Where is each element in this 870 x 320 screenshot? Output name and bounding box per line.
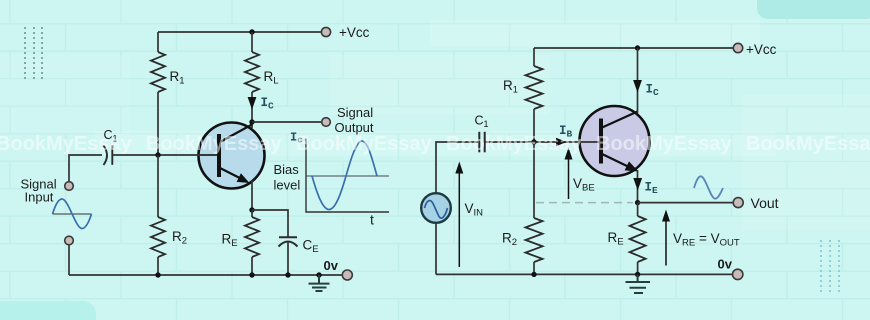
ground (left) — [309, 275, 330, 291]
svg-text:Input: Input — [25, 190, 54, 205]
wire: signal output — [252, 121, 322, 123]
svg-text:level: level — [274, 178, 301, 193]
svg-text:BookMyEssay: BookMyEssay — [0, 133, 132, 155]
node: collector tap on right top rail — [635, 45, 640, 50]
node: CE at rail — [285, 272, 290, 277]
arrow VBE — [568, 158, 570, 199]
terminal +Vcc (left) — [321, 27, 330, 36]
capacitor C1 (right) — [478, 132, 480, 153]
wire: C1 to Q2 base — [485, 141, 600, 143]
wire: lower input terminal to bottom rail — [68, 245, 70, 275]
wire: emitter lead from Q1 — [251, 180, 253, 210]
capacitor CE — [279, 236, 297, 238]
svg-text:Bias: Bias — [274, 162, 300, 177]
node: base node (R1/R2/C1) — [155, 152, 160, 157]
wire: R2 bottom lead — [157, 257, 159, 275]
node: R2 at rail (right) — [531, 272, 536, 277]
node: emitter node (right) — [635, 200, 640, 205]
wire: R2 top lead (right) — [533, 142, 535, 218]
terminal signal input upper — [65, 182, 74, 191]
svg-text:+Vcc: +Vcc — [746, 42, 777, 57]
svg-text:0v: 0v — [324, 258, 339, 273]
wire: right circuit top rail — [534, 47, 733, 49]
wire: left bottom rail — [69, 274, 342, 276]
resistor R2 (right) — [526, 218, 543, 262]
terminal 0v (right) — [733, 269, 743, 279]
resistor RE (right) — [630, 216, 646, 262]
terminal 0v (left) — [342, 270, 352, 280]
svg-text:t: t — [370, 212, 374, 228]
wire: RL top lead — [251, 32, 253, 52]
graph sine wave — [312, 141, 377, 210]
wire: C1 to base node to Q1 base — [112, 154, 217, 156]
node: emitter node — [249, 207, 254, 212]
svg-text:Vout: Vout — [751, 195, 779, 211]
wire: R2 top lead from base node — [157, 155, 159, 217]
wire: CE bottom lead — [287, 242, 289, 275]
current arrow IC (right) — [633, 80, 642, 93]
node: ground tap — [316, 272, 321, 277]
wire: Vout — [638, 202, 734, 204]
wire: AC source bottom to rail — [435, 223, 437, 275]
wire: left circuit top rail to +Vcc — [158, 31, 321, 33]
node: base node (right) — [531, 139, 536, 144]
wire: R1 bottom lead to base node (right) — [533, 109, 535, 142]
node: left top rail junction at RL column — [249, 29, 254, 34]
svg-text:+Vcc: +Vcc — [339, 25, 370, 40]
node: RE at rail — [249, 272, 254, 277]
wire: R1 top lead (right) — [533, 48, 535, 66]
wire: emitter node to RE — [251, 210, 253, 217]
wire: R1 bottom lead to base node — [157, 92, 159, 155]
resistor R2 (left) — [151, 217, 165, 257]
terminal +Vcc (right) — [733, 43, 742, 52]
wire: RE bottom lead (right) — [637, 262, 639, 274]
node: R2 at rail — [155, 272, 160, 277]
dashed reference line — [536, 202, 633, 204]
svg-text:BookMyEssay: BookMyEssay — [446, 133, 582, 155]
input sine symbol — [53, 213, 92, 215]
terminal signal input lower — [65, 236, 74, 245]
graph axes — [306, 139, 389, 213]
resistor R1 (left) — [151, 52, 165, 92]
node: signal output tap on collector — [249, 119, 254, 124]
resistor RE (left) — [245, 217, 259, 257]
current arrow IB — [556, 138, 567, 146]
arrow VRE — [665, 220, 667, 266]
wire: R1 top lead — [157, 32, 159, 52]
svg-text:0v: 0v — [718, 257, 733, 272]
watermark row — [0, 133, 870, 155]
node: RE/ground at rail (right) — [635, 272, 640, 277]
AC source VS — [421, 193, 451, 223]
wire: AC source top to C1 (right) — [436, 142, 478, 193]
wire: Q2 collector — [637, 48, 639, 113]
svg-text:BookMyEssay: BookMyEssay — [296, 133, 432, 155]
wire: emitter node to CE branch — [252, 210, 288, 237]
wire: R2 bottom lead (right) — [533, 262, 535, 274]
ground (right) — [626, 274, 651, 293]
capacitor C1 (left) — [104, 146, 108, 166]
wire: RE top lead (right) — [637, 203, 639, 216]
svg-text:BookMyEssay: BookMyEssay — [596, 133, 732, 155]
current arrow IE — [633, 178, 642, 191]
transistor Q1 — [198, 123, 265, 189]
current arrow IC (left) — [248, 97, 257, 110]
output sine symbol — [694, 176, 723, 198]
wire: input terminal to C1 — [69, 155, 102, 182]
bias level line — [306, 175, 389, 177]
wire: Q2 emitter to emitter node — [637, 170, 639, 203]
resistor RL — [245, 52, 259, 92]
svg-text:Signal: Signal — [337, 105, 373, 120]
wire: RE bottom lead — [251, 257, 253, 275]
svg-text:BookMyEssay: BookMyEssay — [146, 133, 282, 155]
wire: collector wire from RL to transistor — [251, 92, 253, 128]
arrow VIN — [458, 172, 460, 267]
resistor R1 (right) — [526, 66, 543, 109]
transistor Q2 — [579, 106, 650, 176]
terminal Vout — [733, 198, 743, 208]
terminal Signal Output — [322, 118, 331, 127]
svg-text:BookMyEssay: BookMyEssay — [746, 133, 870, 155]
wire: right bottom rail — [436, 273, 732, 275]
